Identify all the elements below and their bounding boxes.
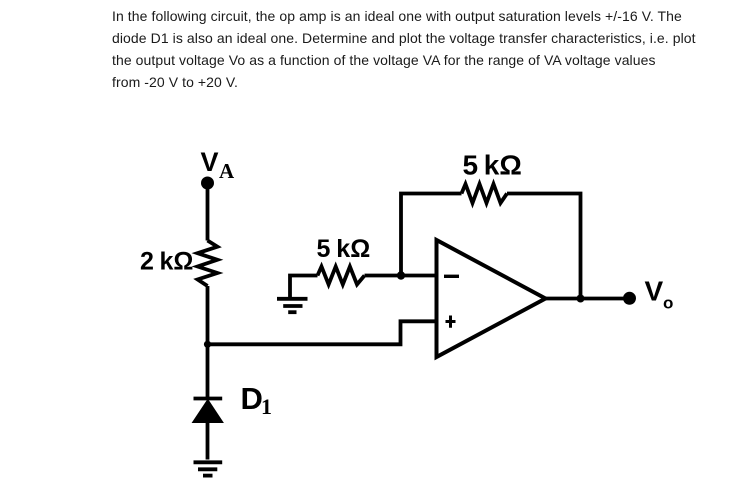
svg-text:A: A bbox=[219, 159, 235, 183]
svg-text:kΩ: kΩ bbox=[484, 150, 522, 181]
svg-text:kΩ: kΩ bbox=[160, 248, 194, 276]
svg-text:1: 1 bbox=[261, 394, 272, 419]
svg-text:V: V bbox=[645, 276, 664, 307]
svg-text:V: V bbox=[201, 147, 219, 177]
svg-text:5: 5 bbox=[317, 235, 331, 263]
svg-text:5: 5 bbox=[463, 150, 479, 181]
svg-text:D: D bbox=[241, 381, 263, 416]
svg-text:kΩ: kΩ bbox=[336, 235, 370, 263]
svg-text:o: o bbox=[663, 294, 673, 313]
svg-text:2: 2 bbox=[140, 248, 154, 276]
